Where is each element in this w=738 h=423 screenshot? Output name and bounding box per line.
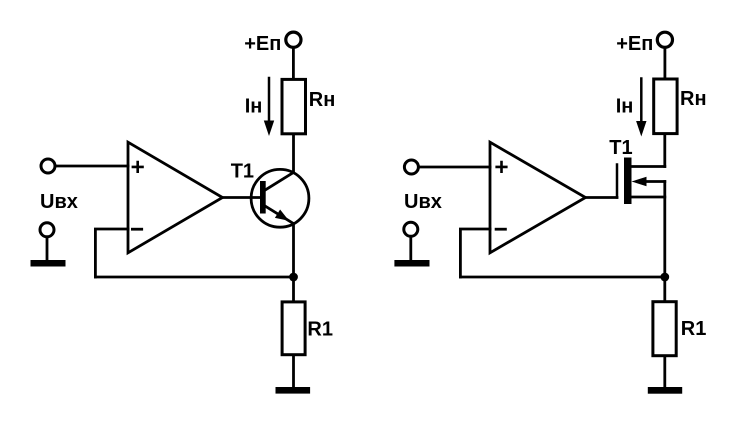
input terminal (left circuit) xyxy=(41,159,55,173)
power terminal +Eп (right) xyxy=(657,32,672,47)
svg-text:Uвх: Uвх xyxy=(404,191,442,213)
resistor R1 (right) xyxy=(653,302,676,356)
svg-text:T1: T1 xyxy=(609,137,632,159)
input reference terminal (left) xyxy=(40,223,54,237)
wire: T1 emitter to node A xyxy=(292,224,295,277)
ground (input, right) xyxy=(394,260,429,267)
svg-text:R1: R1 xyxy=(307,318,333,340)
wire: reference terminal to ground xyxy=(46,238,49,260)
wire: op-amp output to T1 base xyxy=(223,196,261,199)
wire: feedback bottom run (right) xyxy=(460,276,664,279)
input terminal (right circuit) xyxy=(404,160,418,174)
svg-text:Uвх: Uвх xyxy=(40,191,78,213)
svg-text:Rн: Rн xyxy=(309,89,336,111)
current arrow Iн (left) xyxy=(264,78,274,136)
op-amp U1 - input marker xyxy=(131,228,143,231)
wire: feedback bottom run (left) xyxy=(95,276,293,279)
wire: op-amp - input to feedback (left) xyxy=(95,229,128,277)
svg-text:T1: T1 xyxy=(231,161,254,183)
op-amp U1 + input marker xyxy=(132,161,144,173)
wire: node A to R1 (left) xyxy=(292,277,295,300)
resistor R1 (left) xyxy=(282,302,305,355)
node B (source / R1 junction, right) xyxy=(660,273,669,282)
wire: input terminal to op-amp + input xyxy=(57,165,129,168)
transistor T1 (MOSFET, right) xyxy=(617,158,665,205)
svg-text:R1: R1 xyxy=(681,318,707,340)
wire: op-amp - input to feedback (right) xyxy=(460,229,490,277)
resistor Rн (left) xyxy=(282,79,306,133)
ground (left) xyxy=(276,387,311,394)
current arrow Iн (right) xyxy=(636,79,646,137)
ground (input, left) xyxy=(31,260,66,267)
svg-text:Iн: Iн xyxy=(245,96,263,118)
resistor Rн (right) xyxy=(654,79,677,134)
op-amp U2 - input marker xyxy=(495,228,507,231)
op-amp U1 (left) xyxy=(128,142,223,253)
wire: T1 source/substrate to node B xyxy=(663,182,666,278)
wire: node B to R1 (right) xyxy=(663,277,666,300)
ground (right) xyxy=(648,387,682,394)
transistor T1 (BJT, left) xyxy=(251,169,309,227)
wire: reference terminal to ground (right) xyxy=(409,237,412,260)
wire: Rн to T1 drain (right) xyxy=(663,135,666,167)
wire: input terminal to op-amp + input (right) xyxy=(420,166,490,169)
wire: Rн to T1 collector xyxy=(292,135,295,172)
wire: R1 to ground (left) xyxy=(292,356,295,388)
wire: op-amp output to T1 gate (right) xyxy=(586,196,618,199)
wire: +Eп terminal to Rн xyxy=(292,48,295,78)
svg-text:Iн: Iн xyxy=(616,96,634,118)
wire: +Eп terminal to Rн (right) xyxy=(664,49,667,78)
input reference terminal (right) xyxy=(404,222,418,236)
wire: R1 to ground (right) xyxy=(663,357,666,388)
svg-text:+Eп: +Eп xyxy=(244,33,281,55)
power terminal +Eп (left) xyxy=(286,32,301,47)
svg-text:Rн: Rн xyxy=(680,88,707,110)
svg-text:+Eп: +Eп xyxy=(616,33,653,55)
node A (emitter / R1 junction, left) xyxy=(289,273,298,282)
op-amp U2 (right) xyxy=(490,142,586,253)
op-amp U2 + input marker xyxy=(495,161,507,173)
